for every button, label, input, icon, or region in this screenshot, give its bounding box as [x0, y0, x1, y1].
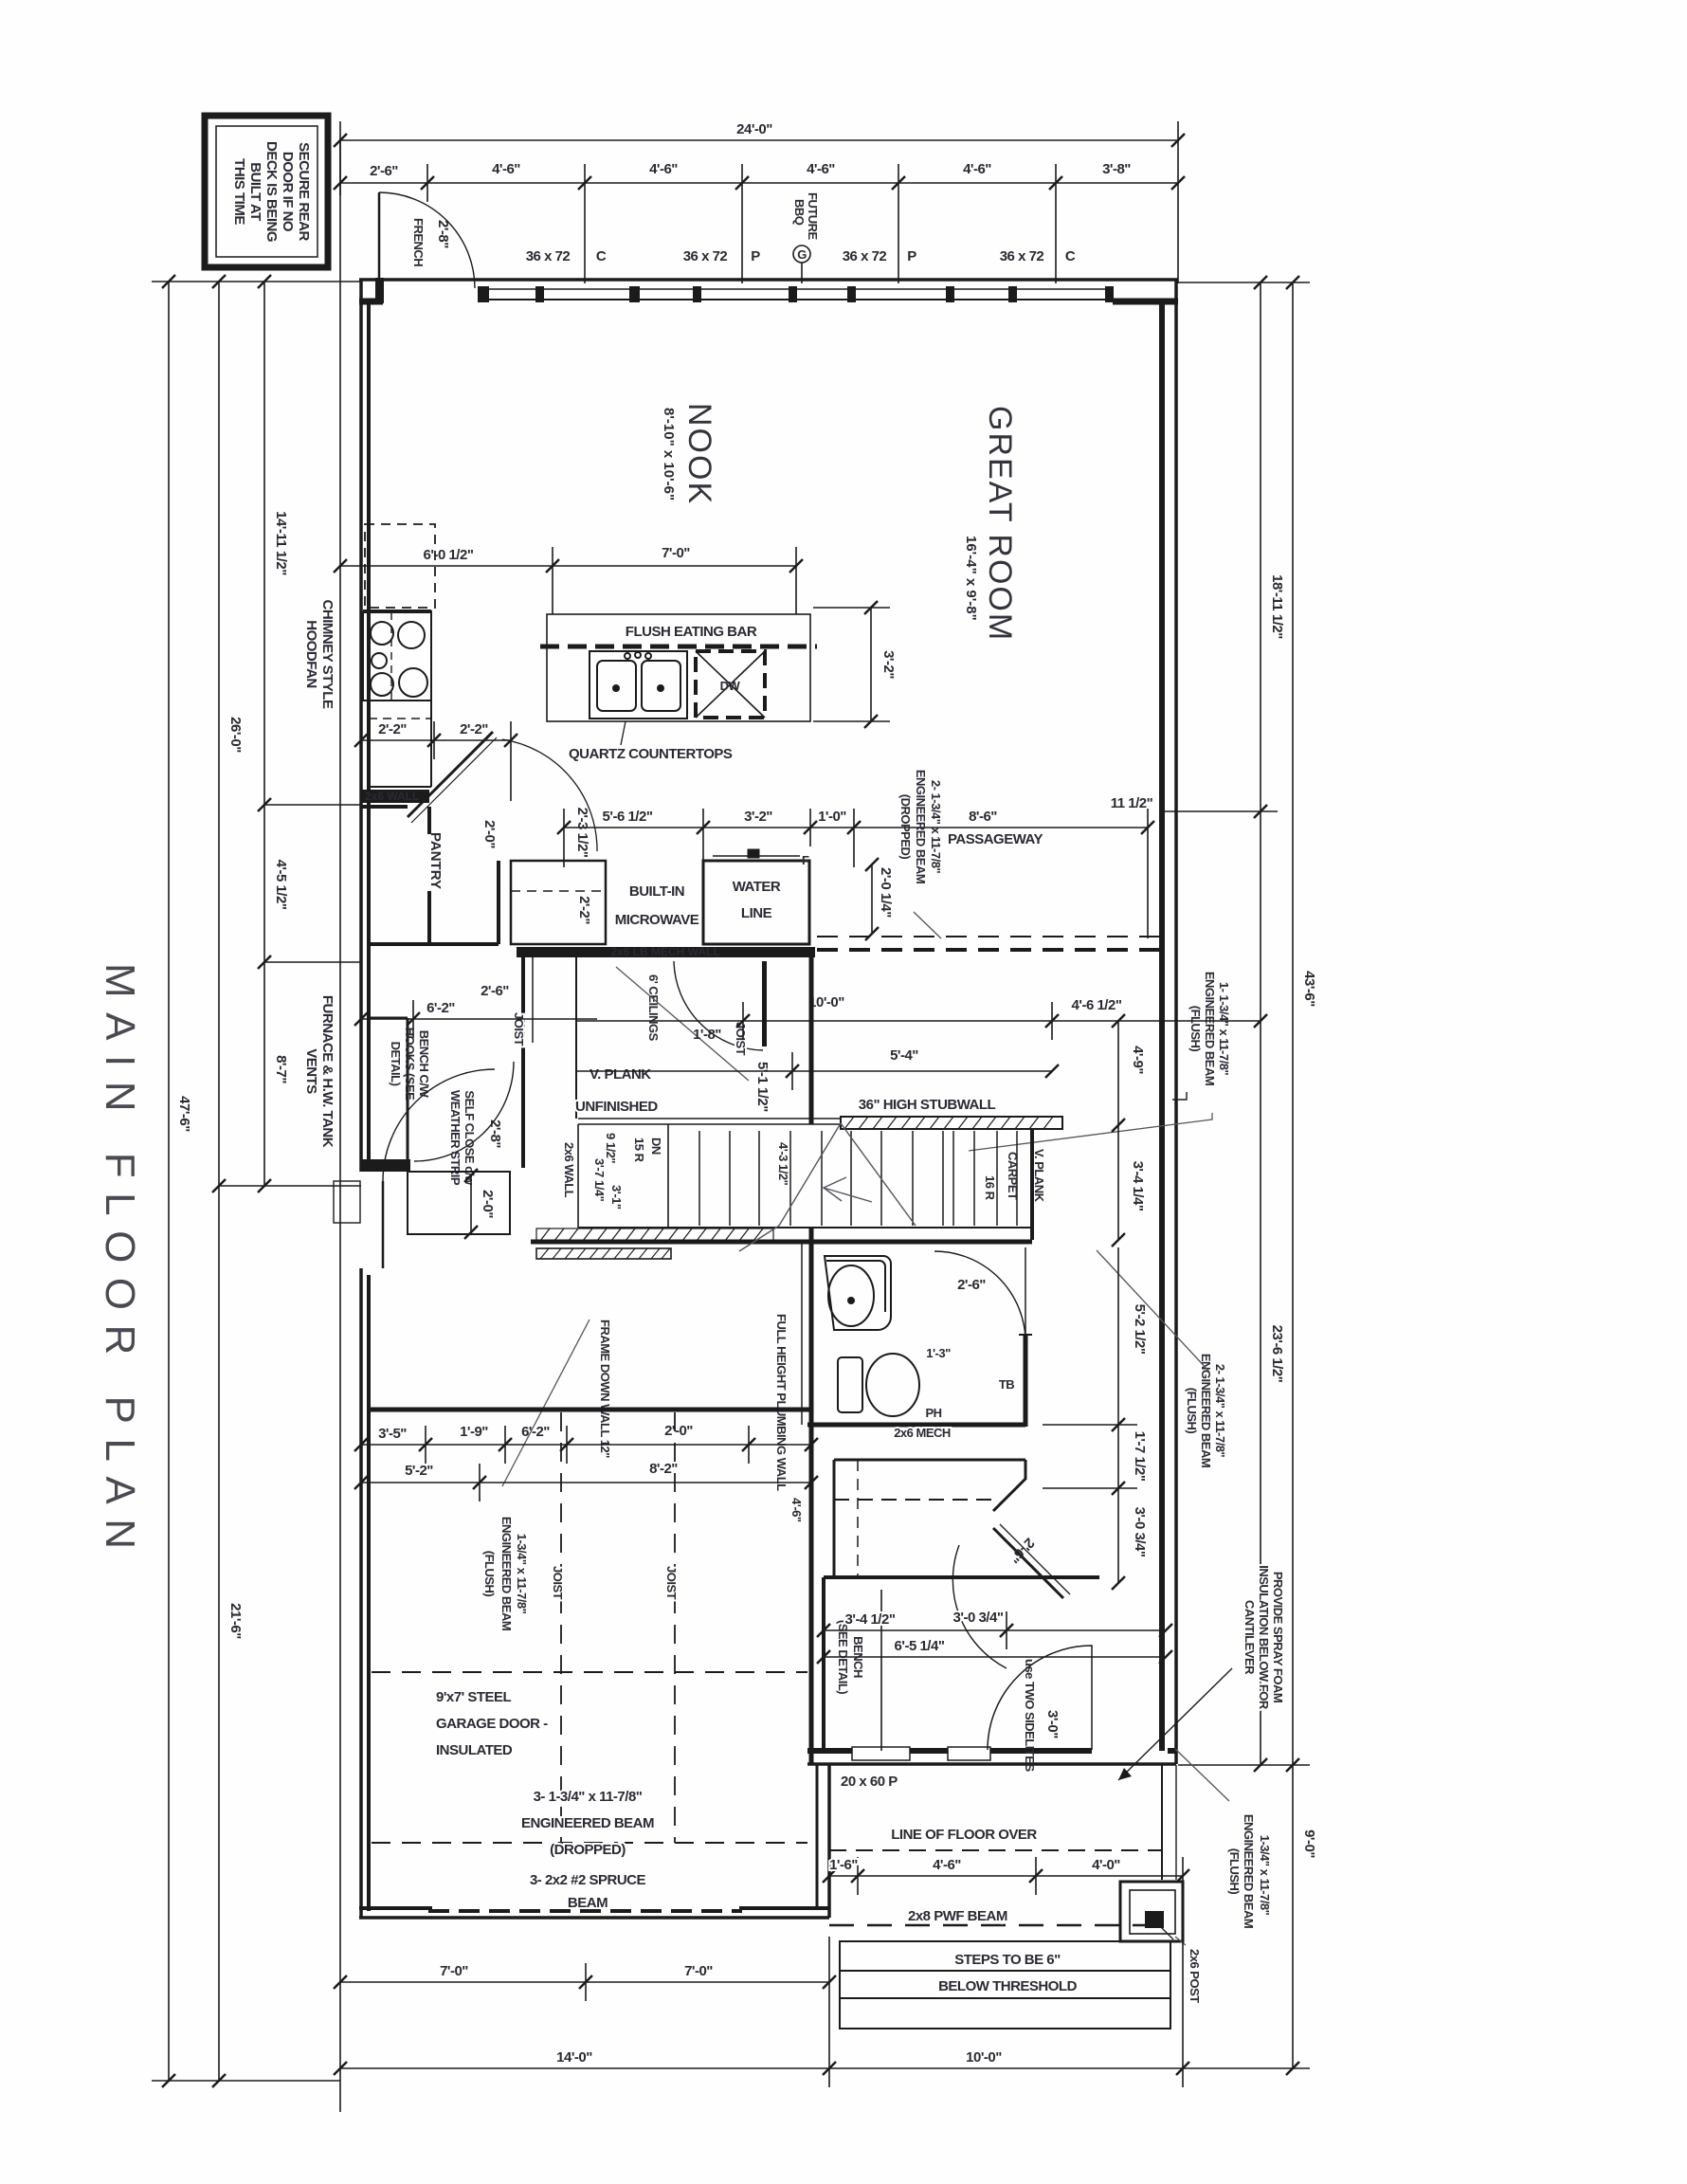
- bench room walls: [824, 1577, 1099, 1751]
- bench area dims: [824, 1611, 1166, 1657]
- joist dashed lines in garage: [560, 1412, 562, 1843]
- svg-text:MAIN FLOOR PLAN: MAIN FLOOR PLAN: [97, 963, 143, 1563]
- top wall inner face left stub: [359, 299, 383, 305]
- svg-text:(DROPPED): (DROPPED): [898, 794, 913, 860]
- window band sill line: [478, 288, 1113, 290]
- svg-text:PASSAGEWAY: PASSAGEWAY: [948, 831, 1043, 847]
- svg-text:6'-5 1/4": 6'-5 1/4": [895, 1638, 945, 1654]
- svg-text:UNFINISHED: UNFINISHED: [575, 1099, 658, 1115]
- svg-text:3'-8": 3'-8": [1102, 161, 1131, 177]
- stair bottom line: [578, 1227, 1032, 1228]
- svg-text:1-3/4" x 11-7/8": 1-3/4" x 11-7/8": [1258, 1835, 1272, 1916]
- svg-text:(FLUSH): (FLUSH): [1185, 1388, 1199, 1434]
- svg-text:3'-1": 3'-1": [609, 1185, 624, 1210]
- double sink: [590, 651, 687, 719]
- bbq stub line: [801, 263, 803, 283]
- dim line 24'-0": [340, 121, 1178, 283]
- treads main flight: [699, 1131, 943, 1226]
- pantry door arc: [502, 739, 597, 851]
- svg-text:GREAT ROOM: GREAT ROOM: [982, 406, 1018, 642]
- french door leaf: [378, 192, 381, 281]
- svg-text:(FLUSH): (FLUSH): [1227, 1848, 1242, 1895]
- island / eating bar: [547, 614, 810, 721]
- tick 24' right: [1171, 134, 1185, 147]
- concrete pad + post: [1120, 1882, 1183, 1941]
- svg-text:4'-6 1/2": 4'-6 1/2": [1072, 997, 1122, 1013]
- svg-text:JOIST: JOIST: [664, 1566, 679, 1600]
- svg-text:5'-2 1/2": 5'-2 1/2": [1132, 1304, 1148, 1355]
- svg-text:24'-0": 24'-0": [736, 121, 772, 137]
- mech room walls below bath: [834, 1460, 1025, 1577]
- microwave box: [511, 861, 606, 944]
- dim line above (2-3 1/2, 5-6 1/2, 3-2, 1-0): [564, 809, 1148, 867]
- svg-text:use TWO SIDELITES: use TWO SIDELITES: [1023, 1659, 1037, 1772]
- stair right wall: [1030, 1128, 1034, 1240]
- svg-text:4'-0": 4'-0": [1092, 1857, 1120, 1873]
- svg-text:4'-6": 4'-6": [789, 1498, 804, 1522]
- svg-text:STEPS TO BE 6": STEPS TO BE 6": [954, 1952, 1061, 1968]
- garage bottom wall inner: [359, 1906, 432, 1910]
- garage top dim row1: [361, 1426, 811, 1464]
- toilet: [838, 1354, 919, 1416]
- side entry door leaf: [382, 1181, 385, 1268]
- stair enclosure left wall: [575, 957, 577, 1119]
- dishwasher dashed with X: [696, 651, 765, 718]
- svg-text:36" HIGH STUBWALL: 36" HIGH STUBWALL: [859, 1097, 996, 1113]
- svg-text:BUILT-IN: BUILT-IN: [629, 883, 684, 900]
- dim row (1-6,4-6,4-0): [829, 1857, 1183, 1895]
- side entry landing slab: [361, 1159, 410, 1172]
- front wall inner segments: [807, 1748, 852, 1754]
- svg-text:ENGINEERED BEAM: ENGINEERED BEAM: [521, 1815, 654, 1831]
- tick 24' left: [334, 134, 347, 147]
- svg-text:PH: PH: [925, 1406, 941, 1420]
- right wall outer face: [1174, 280, 1178, 1764]
- svg-text:2'-0 1/4": 2'-0 1/4": [878, 867, 894, 918]
- svg-text:3'-4 1/4": 3'-4 1/4": [1130, 1161, 1146, 1211]
- garage right side wall to front: [827, 1765, 831, 1918]
- leader lines from stair area: [969, 1113, 1212, 1151]
- svg-text:21'-6": 21'-6": [227, 1603, 244, 1639]
- window mullion blocks: [478, 286, 1114, 302]
- svg-text:ENGINEERED BEAM: ENGINEERED BEAM: [1242, 1814, 1256, 1928]
- svg-text:18'-11 1/2": 18'-11 1/2": [1269, 574, 1285, 639]
- svg-text:16 R: 16 R: [983, 1175, 997, 1201]
- svg-text:16'-4" x 9'-8": 16'-4" x 9'-8": [963, 536, 979, 621]
- ticks row2: [334, 176, 1185, 190]
- svg-text:3'-0 3/4": 3'-0 3/4": [953, 1610, 1004, 1626]
- svg-text:3'-2": 3'-2": [880, 650, 897, 679]
- svg-text:1'-7 1/2": 1'-7 1/2": [1132, 1431, 1148, 1482]
- line of floor over dashed: [829, 1849, 1162, 1851]
- svg-text:FURNACE & H.W. TANK: FURNACE & H.W. TANK: [319, 995, 336, 1148]
- svg-text:DECK IS BEING: DECK IS BEING: [263, 141, 280, 242]
- svg-text:C: C: [596, 248, 607, 264]
- svg-text:LINE OF FLOOR OVER: LINE OF FLOOR OVER: [891, 1827, 1037, 1843]
- svg-text:FULL HEIGHT PLUMBING WALL: FULL HEIGHT PLUMBING WALL: [774, 1314, 789, 1491]
- svg-text:(DROPPED): (DROPPED): [550, 1842, 626, 1858]
- svg-text:5'-1 1/2": 5'-1 1/2": [754, 1062, 771, 1112]
- svg-text:15 R: 15 R: [632, 1137, 646, 1163]
- pedestal sink: [825, 1256, 891, 1330]
- svg-text:HOOKS (SEE: HOOKS (SEE: [403, 1028, 417, 1101]
- svg-text:PANTRY: PANTRY: [427, 832, 444, 889]
- ticks right dims: [1254, 276, 1299, 2075]
- svg-text:43'-6": 43'-6": [1301, 971, 1317, 1007]
- svg-text:2- 1-3/4" x 11-7/8": 2- 1-3/4" x 11-7/8": [929, 780, 943, 874]
- svg-text:F: F: [802, 853, 809, 867]
- mech dashed shelf: [834, 1499, 995, 1501]
- svg-text:2x6 POST: 2x6 POST: [1188, 1949, 1202, 2003]
- svg-text:CANTILEVER: CANTILEVER: [1243, 1600, 1257, 1675]
- bath bottom wall: [807, 1423, 1025, 1428]
- svg-text:1-3/4" x 11-7/8": 1-3/4" x 11-7/8": [515, 1534, 529, 1614]
- top wall outer face: [359, 278, 1178, 282]
- window band inner line: [478, 299, 1113, 300]
- svg-text:THIS TIME: THIS TIME: [231, 158, 247, 225]
- svg-text:ENGINEERED BEAM: ENGINEERED BEAM: [499, 1517, 514, 1630]
- svg-text:8'-6": 8'-6": [969, 809, 997, 825]
- angled closet walls: [993, 1460, 1063, 1598]
- hall left wall: [521, 957, 525, 1168]
- svg-text:14'-11 1/2": 14'-11 1/2": [273, 511, 289, 575]
- svg-text:23'-6 1/2": 23'-6 1/2": [1269, 1325, 1285, 1383]
- svg-text:10'-0": 10'-0": [966, 2049, 1002, 2066]
- stair upper boundary double line: [578, 1118, 841, 1119]
- svg-text:4'-5 1/2": 4'-5 1/2": [273, 860, 289, 910]
- svg-text:9'x7' STEEL: 9'x7' STEEL: [436, 1689, 512, 1705]
- bbq gas symbol: [793, 246, 810, 263]
- svg-text:26'-0": 26'-0": [227, 717, 244, 753]
- svg-text:7'-0": 7'-0": [662, 545, 690, 561]
- svg-text:INSULATED: INSULATED: [436, 1742, 513, 1758]
- hall/stair south wall: [531, 1240, 1032, 1245]
- fridge dashed box: [365, 524, 435, 608]
- right wall inner face: [1159, 301, 1165, 1751]
- svg-text:10'-0": 10'-0": [808, 994, 844, 1010]
- svg-text:ENGINEERED BEAM: ENGINEERED BEAM: [914, 770, 928, 883]
- note box frame: [205, 116, 328, 267]
- svg-text:WATER: WATER: [733, 879, 781, 895]
- svg-text:2- 1-3/4" x 11-7/8": 2- 1-3/4" x 11-7/8": [1213, 1364, 1227, 1458]
- svg-text:1'-9": 1'-9": [460, 1424, 488, 1440]
- svg-text:3'-0": 3'-0": [1044, 1710, 1061, 1738]
- svg-text:DOOR IF NO: DOOR IF NO: [280, 152, 296, 232]
- front windows: [852, 1747, 990, 1760]
- svg-text:VENTS: VENTS: [303, 1048, 319, 1094]
- mud door arc: [383, 1069, 495, 1181]
- left wall outer face upper: [359, 280, 363, 1172]
- svg-text:SECURE REAR: SECURE REAR: [296, 142, 312, 241]
- svg-text:FLUSH EATING BAR: FLUSH EATING BAR: [626, 624, 757, 640]
- svg-text:DW: DW: [720, 679, 741, 693]
- counter edge below stove: [430, 610, 432, 787]
- dashed dropped beam lines across: [817, 936, 1162, 937]
- leader bottom right beam: [1175, 1749, 1229, 1801]
- note box text: [231, 141, 312, 242]
- svg-text:BBQ: BBQ: [792, 199, 807, 226]
- spray foam arrow: [1118, 1668, 1232, 1780]
- svg-text:7'-0": 7'-0": [440, 1963, 468, 1979]
- svg-text:2x8 PWF BEAM: 2x8 PWF BEAM: [908, 1908, 1007, 1924]
- passageway ticks: [1141, 821, 1154, 834]
- svg-text:FRENCH: FRENCH: [411, 218, 426, 266]
- steps: [840, 1941, 1170, 2029]
- center bearing wall: [809, 957, 814, 1124]
- svg-text:5'-4": 5'-4": [890, 1047, 918, 1064]
- landing step lines: [408, 1172, 510, 1234]
- stove burners: [371, 622, 427, 697]
- svg-text:1'-8": 1'-8": [693, 1027, 721, 1043]
- svg-text:2x6 WALL: 2x6 WALL: [562, 1142, 576, 1198]
- dropped beam dashed lines: [372, 1671, 807, 1673]
- top wall inner face right stub: [1113, 299, 1178, 305]
- kitchen dim 2'-2" 2'-2": [361, 721, 511, 801]
- svg-text:P: P: [907, 248, 916, 264]
- svg-text:6'-2": 6'-2": [426, 1000, 455, 1016]
- svg-text:20 x 60 P: 20 x 60 P: [841, 1774, 898, 1790]
- svg-text:1'-0": 1'-0": [818, 809, 846, 825]
- svg-text:2'-8": 2'-8": [435, 220, 451, 248]
- svg-text:4'-3 1/2": 4'-3 1/2": [776, 1142, 790, 1186]
- svg-text:QUARTZ COUNTERTOPS: QUARTZ COUNTERTOPS: [569, 746, 733, 762]
- entry door arc at top of hall: [674, 961, 763, 1050]
- svg-text:2'-2": 2'-2": [378, 721, 407, 737]
- svg-text:6'-2": 6'-2": [521, 1424, 550, 1440]
- kitchen dim line 6'-0 1/2" / 7'-0": [340, 547, 796, 614]
- entry dim line: [361, 1000, 597, 1038]
- bottom dims: [340, 1857, 1183, 2087]
- bench front edge: [880, 1590, 882, 1751]
- bath top wall is stair south wall; right wall: [1025, 1247, 1026, 1346]
- svg-text:1- 1-3/4" x 11-7/8": 1- 1-3/4" x 11-7/8": [1217, 982, 1231, 1076]
- landing box left of treads: [577, 1124, 579, 1228]
- svg-text:8'-7": 8'-7": [273, 1055, 289, 1083]
- svg-text:6' CEILINGS: 6' CEILINGS: [646, 974, 661, 1042]
- treads right flight (carpet): [953, 1131, 1017, 1226]
- svg-text:JOIST: JOIST: [734, 1022, 748, 1056]
- svg-text:7'-0": 7'-0": [684, 1963, 713, 1979]
- svg-text:HOODFAN: HOODFAN: [303, 620, 319, 688]
- eating bar dashed heavy edge: [540, 645, 817, 649]
- dim line row 2: [340, 164, 1178, 283]
- svg-text:3'-5": 3'-5": [378, 1426, 407, 1442]
- svg-text:2'-6": 2'-6": [481, 983, 509, 999]
- svg-text:6'-0 1/2": 6'-0 1/2": [424, 547, 474, 563]
- svg-text:JOIST: JOIST: [551, 1566, 565, 1600]
- front wall (bottom right section) outer: [807, 1762, 1176, 1766]
- water line box: [703, 850, 809, 944]
- left wall inner face lower: [367, 1275, 371, 1911]
- quartz countertops label + leader: [621, 721, 626, 745]
- svg-text:11 1/2": 11 1/2": [1111, 795, 1153, 811]
- french door swing arc: [379, 192, 475, 288]
- svg-text:ENGINEERED BEAM: ENGINEERED BEAM: [1199, 1354, 1213, 1467]
- leader to beam: [1172, 1092, 1187, 1100]
- svg-text:36 x 72: 36 x 72: [526, 248, 571, 264]
- entry door leaf (open): [762, 961, 767, 1046]
- svg-text:LINE: LINE: [741, 905, 772, 921]
- leader: [914, 912, 941, 938]
- bath door arc (opening at top right): [934, 1251, 1025, 1342]
- svg-text:BEAM: BEAM: [568, 1895, 608, 1911]
- svg-text:1'-6": 1'-6": [829, 1857, 858, 1873]
- svg-text:36 x 72: 36 x 72: [1000, 248, 1044, 264]
- mech wall black band: [517, 947, 815, 957]
- svg-text:36 x 72: 36 x 72: [683, 248, 728, 264]
- svg-text:V. PLANK: V. PLANK: [590, 1066, 651, 1083]
- svg-text:JOIST: JOIST: [512, 1012, 526, 1046]
- svg-text:CARPET: CARPET: [1006, 1152, 1020, 1200]
- svg-text:V. PLANK: V. PLANK: [1032, 1149, 1046, 1203]
- left dim vertical 47'-6": [152, 138, 361, 2112]
- svg-text:DETAIL): DETAIL): [389, 1042, 403, 1086]
- svg-text:P: P: [751, 248, 760, 264]
- svg-text:5'-6 1/2": 5'-6 1/2": [603, 809, 653, 825]
- stove: [363, 612, 431, 701]
- svg-text:5'-2": 5'-2": [405, 1463, 433, 1479]
- svg-text:2'-0": 2'-0": [480, 1190, 496, 1218]
- svg-text:ENGINEERED BEAM: ENGINEERED BEAM: [1203, 972, 1217, 1085]
- 2x6 wall label: [361, 790, 429, 803]
- 4'-9" dim right of stub: [1117, 1021, 1119, 1240]
- svg-text:C: C: [1065, 248, 1076, 264]
- svg-text:2'-0": 2'-0": [481, 820, 498, 848]
- svg-text:BELOW THRESHOLD: BELOW THRESHOLD: [938, 1978, 1077, 1994]
- closet door arc: [952, 1545, 1007, 1668]
- stair hatch floor strip: [536, 1228, 773, 1241]
- pantry walls: [361, 807, 499, 944]
- svg-text:2'-6": 2'-6": [1006, 1535, 1037, 1566]
- svg-text:4'-9": 4'-9": [1130, 1046, 1146, 1074]
- svg-text:CHIMNEY STYLE: CHIMNEY STYLE: [319, 600, 336, 709]
- left wall outer face lower (garage): [359, 1268, 363, 1918]
- svg-text:PROVIDE SPRAY FOAM: PROVIDE SPRAY FOAM: [1271, 1572, 1285, 1702]
- svg-text:(FLUSH): (FLUSH): [482, 1551, 497, 1597]
- svg-text:4'-6": 4'-6": [492, 161, 520, 177]
- svg-text:47'-6": 47'-6": [176, 1096, 192, 1132]
- bench alcove walls: [369, 1018, 408, 1159]
- svg-text:2'-8": 2'-8": [487, 1119, 503, 1148]
- svg-text:1'-3": 1'-3": [926, 1346, 951, 1360]
- svg-text:GARAGE DOOR -: GARAGE DOOR -: [436, 1716, 548, 1732]
- svg-text:FRAME DOWN WALL 12": FRAME DOWN WALL 12": [598, 1319, 612, 1458]
- svg-text:2'-2": 2'-2": [576, 896, 592, 924]
- svg-text:NOOK: NOOK: [681, 403, 717, 505]
- svg-text:(FLUSH): (FLUSH): [1188, 1006, 1203, 1052]
- svg-text:FUTURE: FUTURE: [806, 192, 820, 241]
- svg-text:BUILT AT: BUILT AT: [247, 162, 263, 221]
- hatched frame-down strip below stairs: [536, 1248, 671, 1259]
- pantry door diagonal: [408, 732, 493, 817]
- svg-text:2x6 WALL: 2x6 WALL: [365, 790, 419, 803]
- svg-text:INSULATION BELOW FOR: INSULATION BELOW FOR: [1257, 1565, 1271, 1710]
- side entry threshold lines: [334, 1181, 360, 1223]
- svg-text:2x6 MECH: 2x6 MECH: [894, 1426, 951, 1440]
- svg-text:2'-3 1/2": 2'-3 1/2": [574, 808, 590, 858]
- svg-text:3'-7 1/4": 3'-7 1/4": [592, 1158, 607, 1202]
- svg-text:9'-0": 9'-0": [1301, 1829, 1317, 1858]
- 2x8 pwf beam dashed: [829, 1924, 1162, 1927]
- svg-text:MICROWAVE: MICROWAVE: [615, 912, 699, 928]
- svg-text:3- 2x2 #2 SPRUCE: 3- 2x2 #2 SPRUCE: [530, 1872, 646, 1888]
- left wall inner face upper: [367, 301, 371, 1164]
- svg-text:TB: TB: [999, 1377, 1014, 1392]
- svg-text:2'-6": 2'-6": [370, 163, 398, 179]
- svg-text:8'-10" x 10'-6": 8'-10" x 10'-6": [661, 408, 677, 500]
- stair direction V guide: [739, 1123, 916, 1251]
- svg-text:2'-6": 2'-6": [957, 1277, 986, 1293]
- island right dim 3'-2": [813, 608, 890, 721]
- 36" stub wall hatched: [841, 1117, 1062, 1129]
- svg-text:3- 1-3/4" x 11-7/8": 3- 1-3/4" x 11-7/8": [534, 1789, 643, 1805]
- svg-text:4'-6": 4'-6": [649, 161, 678, 177]
- svg-text:4'-6": 4'-6": [963, 161, 991, 177]
- svg-text:14'-0": 14'-0": [556, 2049, 592, 2066]
- french door opening jambs: [375, 278, 384, 303]
- svg-text:8'-2": 8'-2": [649, 1461, 678, 1477]
- svg-text:4'-6": 4'-6": [933, 1857, 961, 1873]
- garage top wall: [369, 1408, 811, 1412]
- svg-text:3'-0 3/4": 3'-0 3/4": [1132, 1507, 1148, 1557]
- svg-text:G: G: [797, 247, 807, 262]
- garage overhead door dashed: [428, 1909, 742, 1913]
- svg-text:BENCH C/W: BENCH C/W: [417, 1030, 431, 1099]
- svg-text:DN: DN: [649, 1137, 663, 1155]
- deck edge verticals: [1161, 1765, 1163, 1880]
- front door swing: [988, 1646, 1092, 1750]
- svg-text:3'-4 1/2": 3'-4 1/2": [845, 1611, 896, 1628]
- ticks left dims: [162, 275, 271, 2087]
- svg-text:3'-2": 3'-2": [744, 809, 772, 825]
- svg-text:2'-2": 2'-2": [460, 721, 488, 737]
- svg-text:2x6 LB MECH WALL: 2x6 LB MECH WALL: [610, 945, 719, 958]
- svg-text:2'-0": 2'-0": [664, 1423, 693, 1439]
- garage top dim row2: [361, 1464, 811, 1501]
- svg-text:4'-6": 4'-6": [807, 161, 835, 177]
- svg-text:36 x 72: 36 x 72: [843, 248, 887, 264]
- garage bottom wall outer: [359, 1916, 829, 1920]
